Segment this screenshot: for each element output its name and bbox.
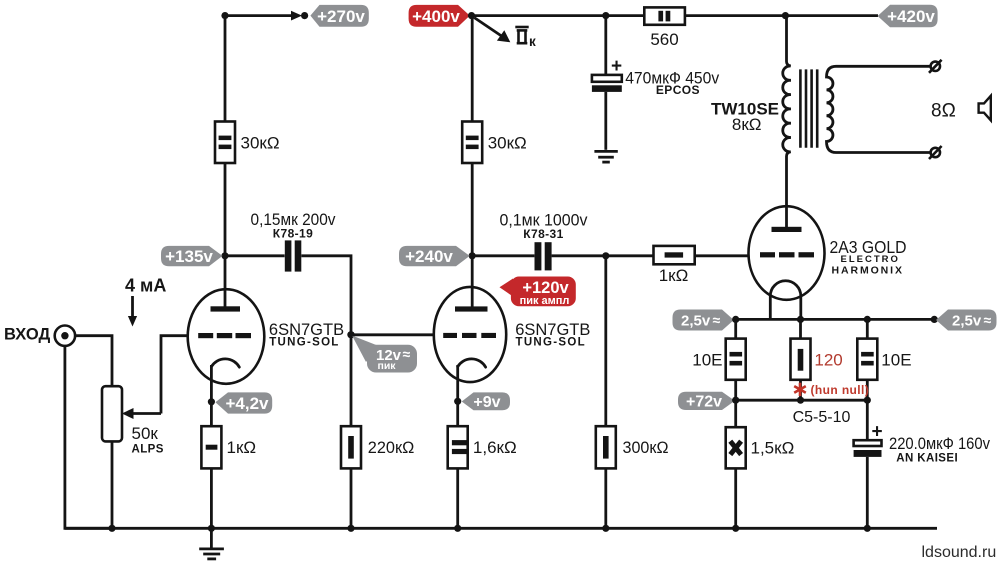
svg-text:HARMONIX: HARMONIX xyxy=(832,265,904,277)
svg-text:≈: ≈ xyxy=(403,346,411,362)
wire 10E left to +72v node xyxy=(734,380,737,400)
node dot +270v xyxy=(301,12,308,19)
svg-text:+9v: +9v xyxy=(473,394,500,411)
wire wiper to grid tube V1 xyxy=(161,336,188,414)
svg-text:≈: ≈ xyxy=(713,312,721,328)
svg-text:560: 560 xyxy=(650,30,678,49)
svg-text:10E: 10E xyxy=(692,350,722,369)
node row right xyxy=(864,397,871,404)
tube V2 grid dashes xyxy=(443,333,457,338)
svg-text:+4,2v: +4,2v xyxy=(225,394,269,413)
node 560 / 470uF xyxy=(602,12,609,19)
svg-text:+420v: +420v xyxy=(887,7,935,26)
svg-text:1кΩ: 1кΩ xyxy=(227,438,257,457)
rail junction 1,5k xyxy=(732,525,739,532)
ground symbol xyxy=(199,528,224,559)
label 2,5v left xyxy=(673,310,734,331)
svg-text:+: + xyxy=(611,56,622,77)
wire 560 to transformer node xyxy=(685,14,786,17)
svg-text:К78-19: К78-19 xyxy=(273,227,313,241)
wire to hum pot 120 xyxy=(799,319,802,338)
svg-text:1кΩ: 1кΩ xyxy=(659,266,689,285)
wire grid stopper to 2A3 xyxy=(695,254,749,257)
capacitor C1 value labels xyxy=(251,210,336,240)
ground symbol 470uF xyxy=(594,151,617,162)
rail junction 220k xyxy=(347,525,354,532)
label +270v xyxy=(310,5,368,27)
tube V1 plate lead inside xyxy=(224,289,227,307)
svg-text:+270v: +270v xyxy=(317,7,365,26)
wire plate supply stage2 xyxy=(471,16,474,122)
tube V3 plate lead inside xyxy=(785,207,788,227)
node filament far right xyxy=(931,316,938,323)
wire C1 to grid node stage2 xyxy=(301,256,351,335)
tube V3 filament xyxy=(770,281,801,320)
rail junction 220uF xyxy=(864,525,871,532)
svg-text:ldsound.ru: ldsound.ru xyxy=(922,544,997,561)
node transformer primary xyxy=(782,12,789,19)
wire cathode to R 1kΩ xyxy=(210,402,213,426)
svg-text:4 мА: 4 мА xyxy=(125,276,166,296)
callout 12v пик xyxy=(352,336,417,373)
wire +72v row xyxy=(736,399,868,402)
wire +400v bus to 470uF node xyxy=(472,14,606,17)
wire node to 560 xyxy=(606,14,645,17)
svg-text:+240v: +240v xyxy=(405,247,453,266)
red asterisk hum null xyxy=(794,383,806,396)
capacitor 220мкФ plates xyxy=(854,440,882,457)
svg-text:2,5v: 2,5v xyxy=(952,312,982,329)
capacitor 470мкФ labels xyxy=(625,68,719,97)
tube V3 2A3 envelope xyxy=(749,206,825,300)
resistor 30kΩ stage2 xyxy=(462,122,527,164)
svg-text:220кΩ: 220кΩ xyxy=(368,438,415,457)
resistor 1,5kΩ xyxy=(726,427,795,468)
svg-text:10E: 10E xyxy=(881,350,911,369)
wire RCA pin to pot top xyxy=(75,336,112,387)
svg-text:ELECTRO: ELECTRO xyxy=(841,254,900,265)
rail junction 300k xyxy=(602,525,609,532)
node +4,2v xyxy=(208,398,215,405)
transformer primary lead and winding xyxy=(783,16,791,227)
node filament right xyxy=(864,316,871,323)
tube V3 labels xyxy=(830,237,907,277)
tube V2 type label xyxy=(515,321,590,349)
svg-text:C5-5-10: C5-5-10 xyxy=(793,409,851,426)
label 2,5v right xyxy=(936,310,997,331)
svg-text:к: к xyxy=(529,34,536,49)
label +420v xyxy=(878,5,938,27)
tube V1 anode xyxy=(211,306,241,311)
wire node to grid stopper xyxy=(606,254,654,257)
wire to 10E right xyxy=(866,319,869,338)
svg-text:8кΩ: 8кΩ xyxy=(732,115,762,134)
label +72v xyxy=(678,392,735,411)
resistor 30kΩ stage1 xyxy=(215,122,280,164)
label +4,2v xyxy=(215,392,272,413)
tube V3 grid dashes xyxy=(760,252,775,257)
tube V1 6SN7GTB envelope xyxy=(188,289,265,384)
rail junction pot xyxy=(108,525,115,532)
resistor 10E right xyxy=(857,339,911,380)
svg-text:50к: 50к xyxy=(132,424,159,443)
node filament left xyxy=(732,316,739,323)
wire to +420v xyxy=(785,14,878,17)
svg-text:1,5кΩ: 1,5кΩ xyxy=(751,439,795,458)
wire pot bottom to ground rail xyxy=(111,441,114,528)
wire RCA shell to ground rail xyxy=(65,346,112,528)
node row center xyxy=(797,397,804,404)
svg-text:TUNG-SOL: TUNG-SOL xyxy=(516,337,586,349)
node +135v xyxy=(221,252,228,259)
wire plate lead tube V2 xyxy=(471,256,474,307)
wire 10E right to row xyxy=(866,380,869,400)
tube V3 anode xyxy=(772,227,802,232)
svg-text:120: 120 xyxy=(814,350,842,369)
transformer core xyxy=(800,69,817,147)
node filament center xyxy=(797,316,804,323)
filament rail xyxy=(736,318,935,321)
svg-text:30кΩ: 30кΩ xyxy=(241,134,280,153)
wire +72v node to 1,5k xyxy=(734,400,737,427)
coupling capacitor C1 wire from +135v xyxy=(225,254,285,257)
svg-text:EPCOS: EPCOS xyxy=(656,83,700,97)
wire 300k to rail xyxy=(604,468,607,528)
wire node down to 300k xyxy=(604,256,607,426)
tube V1 grid dashes xyxy=(198,333,213,338)
resistor 10E left xyxy=(692,339,745,380)
label +400v xyxy=(409,5,470,27)
wire grid node down to 220k xyxy=(350,335,353,426)
wire 470uF from node xyxy=(604,16,607,76)
wire C2 to 300k node xyxy=(552,254,606,257)
svg-text:+135v: +135v xyxy=(165,247,213,266)
wire 220uF to rail xyxy=(866,457,869,528)
wire cathode V2 to 1,6k xyxy=(456,401,459,426)
input RCA connector xyxy=(55,326,75,346)
label +240v xyxy=(399,246,470,266)
wire 120 to +72v row xyxy=(799,380,802,400)
tube V2 anode xyxy=(455,306,488,311)
node +72v xyxy=(732,397,739,404)
svg-text:1,6кΩ: 1,6кΩ xyxy=(473,438,517,457)
svg-text:30кΩ: 30кΩ xyxy=(488,134,527,153)
svg-text:(hun null): (hun null) xyxy=(811,383,870,397)
wire plate lead tube1 xyxy=(224,256,227,307)
rail junction 1k xyxy=(208,525,215,532)
wire 220k to rail xyxy=(350,468,353,528)
tube V1 cathode lead xyxy=(210,365,213,402)
current label 4 мА xyxy=(125,276,166,327)
output terminal bottom xyxy=(929,146,942,159)
wire resistor to +135v node xyxy=(224,163,227,256)
svg-text:пик ампл: пик ампл xyxy=(520,295,570,307)
rail junction 1,6k xyxy=(454,525,461,532)
node +9v xyxy=(454,398,461,405)
capacitor C2 value labels xyxy=(500,210,588,240)
node +270v supply corner xyxy=(221,12,228,19)
node +400v xyxy=(468,12,475,19)
tube V1 type label xyxy=(269,321,344,349)
svg-text:220.0мкФ 160v: 220.0мкФ 160v xyxy=(889,434,990,453)
wire 1,5k to rail xyxy=(734,468,737,528)
resistor 300kΩ xyxy=(596,426,669,468)
tube V2 cathode xyxy=(458,359,486,367)
label +120v пик ампл xyxy=(500,277,576,307)
capacitor 470мкФ plates xyxy=(592,75,622,92)
node +240v xyxy=(469,252,476,259)
resistor 560 xyxy=(644,7,685,48)
svg-text:ВХОД: ВХОД xyxy=(4,325,50,343)
svg-text:ALPS: ALPS xyxy=(132,444,164,456)
label +135v xyxy=(161,246,223,266)
wire resistor to +240v node xyxy=(471,163,474,256)
arrowhead +270v xyxy=(291,11,302,21)
label II k primary winding xyxy=(515,27,536,49)
node grid 2A3 xyxy=(602,252,609,259)
wire 1kΩ to ground rail xyxy=(210,468,213,528)
wire +240v to C2 xyxy=(472,254,534,257)
wire to +270v arrow xyxy=(225,14,293,17)
resistor 220kΩ xyxy=(341,426,414,468)
svg-text:пик: пик xyxy=(378,360,397,372)
wire 470uF to ground xyxy=(604,92,607,150)
svg-text:2,5v: 2,5v xyxy=(681,312,711,329)
speaker icon xyxy=(979,96,991,121)
tube V2 plate lead inside xyxy=(471,287,474,307)
potentiometer 50k body xyxy=(102,386,164,455)
svg-text:300кΩ: 300кΩ xyxy=(623,438,669,457)
wire 1,6k to rail xyxy=(456,468,459,528)
ground rail bottom xyxy=(65,527,937,530)
wire row to 220uF xyxy=(866,400,869,440)
svg-text:+72v: +72v xyxy=(686,394,722,411)
label +9v xyxy=(462,392,510,411)
svg-text:≈: ≈ xyxy=(984,312,992,328)
svg-text:8Ω: 8Ω xyxy=(931,100,956,121)
node grid stage2 xyxy=(347,331,354,338)
svg-text:К78-31: К78-31 xyxy=(523,227,563,241)
wire to 10E left xyxy=(734,319,737,338)
capacitor C2 0,1мк plates xyxy=(535,242,552,270)
output terminal top xyxy=(929,60,942,73)
svg-text:+400v: +400v xyxy=(412,7,460,26)
tube V1 cathode xyxy=(211,359,239,367)
transformer labels xyxy=(711,100,779,135)
tube V2 6SN7GTB envelope xyxy=(434,287,506,382)
resistor 1,6kΩ xyxy=(448,426,517,468)
resistor 1kΩ grid stopper xyxy=(654,246,695,285)
capacitor 220мкФ labels xyxy=(889,434,990,465)
arrow to output transformer primary label xyxy=(474,18,510,43)
potentiometer wiper arrow xyxy=(122,408,161,419)
tube V2 cathode lead xyxy=(456,365,459,401)
resistor 120 hum balance xyxy=(791,339,843,380)
resistor 1kΩ cathode stage1 xyxy=(201,426,256,468)
wire plate supply stage 1 xyxy=(224,16,227,122)
transformer secondary winding xyxy=(826,66,930,152)
capacitor C1 0,15мк plates xyxy=(285,240,302,271)
wire grid node to tube V2 xyxy=(351,333,434,336)
svg-text:AN KAISEI: AN KAISEI xyxy=(896,453,958,465)
svg-text:TUNG-SOL: TUNG-SOL xyxy=(269,337,339,349)
